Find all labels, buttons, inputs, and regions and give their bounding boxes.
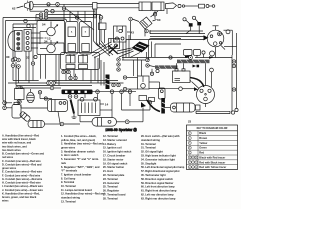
- svg-text:20. Starter button: 20. Starter button: [103, 165, 125, 169]
- connector bar dark: [106, 75, 110, 90]
- generator 24: [155, 60, 210, 69]
- svg-text:wire with red tracer, and: wire with red tracer, and: [2, 141, 32, 145]
- svg-text:Red with Black tracer: Red with Black tracer: [199, 160, 225, 164]
- solenoid bar 13: [161, 98, 165, 114]
- node: [93, 15, 96, 18]
- circuit breaker 17: [197, 86, 215, 108]
- right connector: [199, 4, 215, 8]
- svg-text:1. Conduit (five wires—black,: 1. Conduit (five wires—black,: [61, 134, 97, 138]
- node: [128, 90, 132, 94]
- rear cable: [196, 111, 235, 114]
- svg-text:wire with black tracer, black: wire with black tracer, black: [2, 137, 36, 141]
- svg-text:3. Handlebar dimmer switch: 3. Handlebar dimmer switch: [61, 149, 95, 153]
- svg-text:60. Left front direction lamp: 60. Left front direction lamp: [141, 185, 175, 189]
- breaker pointer: [190, 80, 200, 89]
- battery 14: [78, 97, 100, 115]
- node: [68, 95, 78, 99]
- stacked nodes right: [117, 58, 120, 71]
- node: [110, 90, 114, 94]
- legend column 4: [141, 134, 185, 200]
- box drops: [101, 30, 106, 48]
- frame wire mid: [152, 42, 182, 58]
- node: [34, 55, 37, 58]
- svg-text:55. Stoplight: 55. Stoplight: [141, 161, 156, 165]
- node: [45, 3, 55, 13]
- lamps terminal board 11: [62, 90, 93, 95]
- svg-text:52. Oil signal light: 52. Oil signal light: [141, 150, 163, 154]
- spark plug right: [192, 16, 201, 28]
- wire: [99, 19, 107, 29]
- svg-text:17. Circuit breaker: 17. Circuit breaker: [103, 154, 125, 158]
- svg-text:54. Generator indicator light: 54. Generator indicator light: [141, 157, 175, 161]
- svg-text:28. Terminal: 28. Terminal: [103, 196, 118, 200]
- label 62: [12, 6, 24, 11]
- svg-text:standard wiring: standard wiring: [141, 138, 160, 142]
- svg-text:1968-69 Sportster Ⓡ: 1968-69 Sportster Ⓡ: [105, 127, 137, 132]
- wires: [38, 91, 52, 100]
- diagonal wires: [92, 42, 114, 58]
- bus y85.5: [16, 85, 92, 87]
- svg-text:9. Terminal: 9. Terminal: [61, 180, 75, 184]
- svg-text:58. Direction signal switch: 58. Direction signal switch: [141, 177, 173, 181]
- lamp terminal box: [24, 30, 31, 52]
- svg-text:B. Conduit (two wires)—Green: B. Conduit (two wires)—Green and: [2, 152, 44, 156]
- svg-text:21. Horn: 21. Horn: [103, 169, 114, 173]
- svg-text:KEY TO DIAGRAM COLOR: KEY TO DIAGRAM COLOR: [197, 127, 228, 130]
- headlamp lead: [13, 51, 17, 61]
- node: [129, 17, 133, 21]
- generator brushes: [193, 65, 200, 68]
- node: [119, 29, 122, 32]
- stacked nodes left: [11, 58, 20, 68]
- headlamp bulbs: [17, 32, 20, 50]
- spark plug left: [183, 18, 193, 30]
- terminal box 2: [109, 39, 120, 49]
- wire bus y57.5: [122, 58, 232, 61]
- relay drops: [188, 54, 212, 57]
- svg-text:11. Lamps-terminal board: 11. Lamps-terminal board: [61, 188, 92, 192]
- wire conduit feeds: [70, 11, 85, 21]
- svg-text:two black wires: two black wires: [2, 148, 21, 152]
- wire: [13, 9, 167, 28]
- svg-text:23: 23: [188, 120, 192, 124]
- label 13: [45, 36, 51, 40]
- svg-text:31. Terminal: 31. Terminal: [141, 142, 156, 146]
- svg-text:51. Terminal: 51. Terminal: [141, 146, 156, 150]
- svg-text:16. Ignition-light switch: 16. Ignition-light switch: [103, 150, 132, 154]
- node pair: [39, 16, 47, 19]
- svg-text:14: 14: [105, 102, 109, 106]
- oil pressure switch 19: [138, 76, 150, 89]
- svg-text:63. Right rear direction lamp: 63. Right rear direction lamp: [141, 196, 176, 200]
- kick cylinder: [28, 121, 45, 128]
- node pair: [112, 83, 120, 86]
- right nested frame: [149, 39, 182, 61]
- wire regulator feed: [191, 59, 206, 85]
- svg-text:62: 62: [12, 7, 16, 11]
- handlebar conduit A: [66, 22, 78, 55]
- wire: [131, 19, 146, 40]
- battery lead right: [100, 102, 109, 106]
- node: [99, 15, 103, 19]
- node: [62, 4, 65, 20]
- node: [120, 90, 124, 94]
- legend column 3: [103, 134, 132, 200]
- svg-text:wires: wires: [2, 199, 9, 203]
- conduit cable: [97, 4, 139, 8]
- node: [232, 88, 235, 91]
- ignition coil 15: [92, 118, 117, 127]
- node pair: [62, 70, 70, 73]
- svg-text:two black wires, and: two black wires, and: [2, 144, 27, 148]
- svg-text:A: A: [71, 31, 73, 34]
- svg-text:7. Ignition circuit breaker: 7. Ignition circuit breaker: [61, 173, 91, 177]
- svg-text:Yellow: Yellow: [199, 141, 207, 145]
- svg-text:J. Conduit (one wire)—Green w: J. Conduit (one wire)—Green wire: [2, 188, 43, 192]
- wire right: [45, 122, 81, 126]
- tapered connector: [166, 3, 177, 9]
- coil block 1: [139, 2, 151, 11]
- node pair on bus: [47, 81, 56, 85]
- plug wires: [186, 29, 199, 34]
- cable verticals: [95, 56, 104, 86]
- junction box: [61, 53, 100, 84]
- horn coil: [27, 89, 35, 103]
- legend column 2: [61, 134, 105, 203]
- svg-text:Black with Red tracer: Black with Red tracer: [199, 155, 225, 159]
- svg-text:12. Terminal: 12. Terminal: [103, 134, 118, 138]
- wire battery to junction: [100, 109, 112, 111]
- horn 62: [25, 1, 34, 11]
- vertical wires center: [123, 35, 142, 76]
- wire bus y14.5: [36, 15, 101, 21]
- svg-text:12. Handlebar (four wires)—Red: 12. Handlebar (four wires)—Red and: [61, 192, 105, 196]
- svg-text:30: 30: [6, 55, 10, 59]
- ignition-light switch 16: [207, 26, 224, 47]
- left frame wires: [3, 18, 64, 107]
- wire horn lower: [33, 6, 92, 8]
- svg-text:10. Terminal: 10. Terminal: [61, 184, 76, 188]
- connector node: [56, 3, 60, 7]
- svg-text:62. Left rear direction lamp: 62. Left rear direction lamp: [141, 193, 174, 197]
- node dots: [4, 4, 235, 125]
- svg-text:14. Battery: 14. Battery: [103, 142, 117, 146]
- connector nodes: [178, 4, 185, 7]
- svg-text:2. Handlebar (two wires)—Red: 2. Handlebar (two wires)—Red and: [61, 142, 103, 146]
- wire connector to conduit: [59, 3, 92, 5]
- svg-text:C. Conduit (one wire)—Red wir: C. Conduit (one wire)—Red wire: [2, 159, 41, 163]
- wire lamp drops: [26, 24, 33, 83]
- battery cable: [71, 100, 75, 114]
- svg-text:green wires: green wires: [2, 166, 17, 170]
- vertical wires left: [13, 62, 33, 86]
- node pair: [123, 76, 137, 91]
- terminal box 43: [114, 26, 127, 42]
- svg-text:A. Handlebar (five wires)—Red: A. Handlebar (five wires)—Red: [2, 134, 40, 138]
- svg-text:59. Direction signal flasher: 59. Direction signal flasher: [141, 181, 173, 185]
- starter motor 18: [171, 103, 201, 112]
- bus y83: [8, 82, 124, 84]
- svg-text:E. Conduit (two wires)—Red wi: E. Conduit (two wires)—Red wire: [2, 170, 42, 174]
- node: [153, 11, 156, 19]
- angled boot: [19, 111, 31, 122]
- svg-text:standard wiring: standard wiring: [61, 196, 80, 200]
- flasher 60: [140, 17, 153, 29]
- svg-text:13: 13: [47, 36, 51, 40]
- wire: [147, 52, 160, 76]
- svg-text:Red with Yellow tracer: Red with Yellow tracer: [199, 165, 226, 169]
- horn switch 34: [47, 40, 59, 53]
- svg-text:18. Starter motor: 18. Starter motor: [103, 157, 123, 161]
- node pair: [69, 76, 77, 79]
- svg-text:61. Right front direction lamp: 61. Right front direction lamp: [141, 189, 177, 193]
- outer switch frame: [37, 19, 67, 21]
- svg-text:red wires: red wires: [2, 155, 14, 159]
- switch housing box: [37, 21, 65, 55]
- battery ground: [72, 114, 77, 119]
- wire fan: [117, 48, 140, 58]
- svg-text:56. Left directional signal pi: 56. Left directional signal pilot lamp: [141, 165, 185, 169]
- node: [232, 60, 235, 68]
- svg-text:5. Generator “F” and “A” term: 5. Generator “F” and “A” termi-: [61, 157, 99, 161]
- bus y88: [20, 86, 61, 89]
- arrow into switch: [204, 35, 209, 40]
- conduit box drops: [64, 54, 88, 76]
- svg-text:43: 43: [131, 30, 135, 34]
- node: [96, 90, 100, 94]
- svg-text:Green: Green: [199, 146, 207, 150]
- wire drops to bus: [41, 55, 60, 86]
- svg-text:13. Starter solenoid: 13. Starter solenoid: [103, 138, 127, 142]
- svg-text:green wires: green wires: [61, 146, 76, 150]
- right frame wire: [224, 33, 238, 112]
- wire: [85, 94, 130, 118]
- node: [145, 29, 149, 33]
- switch bracket: [224, 30, 233, 55]
- svg-text:G. Conduit (two wires)—Red wi: G. Conduit (two wires)—Red wire: [2, 177, 43, 181]
- svg-text:yellow, blue, red, and green): yellow, blue, red, and green): [61, 138, 95, 142]
- wire bus y17.5: [3, 17, 93, 19]
- svg-text:nals: nals: [61, 161, 67, 165]
- svg-text:26. Regulator: 26. Regulator: [103, 189, 119, 193]
- node: [24, 19, 30, 27]
- svg-text:29. Horn switch—(flat wire) wi: 29. Horn switch—(flat wire) with: [141, 134, 180, 138]
- svg-text:8. Coil lamp: 8. Coil lamp: [61, 176, 76, 180]
- switch leads: [40, 32, 47, 49]
- svg-text:Red: Red: [199, 151, 204, 155]
- svg-text:15. Ignition coil: 15. Ignition coil: [103, 146, 122, 150]
- arrow: [209, 56, 214, 58]
- conduit end block: [93, 3, 98, 9]
- svg-text:Black: Black: [199, 131, 206, 135]
- nodes left edge: [3, 101, 48, 110]
- dimmer switch 54: [47, 22, 59, 36]
- wire color key table: [187, 120, 238, 170]
- svg-text:K. Handlebar (five wires)—Red: K. Handlebar (five wires)—Red,: [2, 191, 40, 195]
- svg-text:I. Conduit (two wires)—Black: I. Conduit (two wires)—Black wire: [2, 184, 43, 188]
- wire oil sender to cable: [147, 98, 171, 112]
- svg-text:25. Terminal: 25. Terminal: [103, 185, 118, 189]
- headlamp shell: [8, 30, 22, 51]
- wire to right connector: [185, 5, 199, 7]
- node: [75, 16, 78, 19]
- node: [31, 62, 34, 65]
- generator terminals lower: [139, 96, 155, 120]
- svg-text:D. Conduit (two wires)—Red an: D. Conduit (two wires)—Red and: [2, 162, 42, 166]
- spark coil cylinder: [12, 102, 21, 118]
- svg-text:23. Terminal: 23. Terminal: [103, 177, 118, 181]
- wire diagonal: [65, 8, 94, 30]
- wire bus y11: [30, 9, 95, 15]
- wire drop from horn: [29, 4, 31, 11]
- label 43: [127, 30, 134, 34]
- wire lamp feed: [31, 43, 64, 53]
- svg-text:Brown: Brown: [199, 136, 207, 140]
- wire: [122, 101, 152, 110]
- wire horn to connector: [33, 3, 55, 5]
- node pair: [146, 56, 172, 67]
- svg-text:54: 54: [42, 23, 46, 27]
- svg-text:6. Regulator “BAT”, “GEN”, an: 6. Regulator “BAT”, “GEN”, and: [61, 165, 100, 169]
- relay box 20: [48, 100, 68, 127]
- svg-text:F. Conduit (one wire)—Red wir: F. Conduit (one wire)—Red wire: [2, 173, 41, 177]
- ignition switch housing: [132, 42, 150, 53]
- coil block 2: [152, 2, 164, 11]
- svg-text:22. Terminal plate: 22. Terminal plate: [103, 173, 125, 177]
- svg-text:53. High beam indicator light: 53. High beam indicator light: [141, 154, 176, 158]
- node pair: [39, 13, 47, 16]
- svg-text:“F” terminals: “F” terminals: [61, 169, 78, 173]
- wire: [149, 82, 160, 88]
- crossed cables: [109, 45, 118, 54]
- ignition switch drop: [216, 46, 226, 58]
- bus y80.5: [13, 80, 118, 82]
- handlebar conduit B: [79, 22, 91, 55]
- svg-text:brown, green, and two black: brown, green, and two black: [2, 195, 37, 199]
- legend column 1: [2, 134, 44, 203]
- relay blocks: [184, 50, 215, 58]
- oil signal sender: [159, 88, 166, 106]
- coil leads: [80, 116, 143, 124]
- regulator 26: [173, 69, 204, 87]
- svg-text:4. Horn switch: 4. Horn switch: [61, 153, 79, 157]
- svg-text:57. Right directional signal p: 57. Right directional signal pilot: [141, 169, 180, 173]
- svg-text:13. Terminal: 13. Terminal: [61, 199, 76, 203]
- svg-text:60: 60: [157, 18, 161, 22]
- svg-text:19. Oil signal switch: 19. Oil signal switch: [103, 161, 128, 165]
- svg-text:B: B: [85, 32, 87, 34]
- node: [50, 86, 54, 90]
- wire bus to ignition switch: [126, 30, 205, 40]
- label 60: [153, 18, 161, 22]
- lamp wires: [31, 33, 43, 48]
- svg-text:24. Generator: 24. Generator: [103, 181, 119, 185]
- regulator leads: [177, 55, 233, 112]
- terminal block 22: [15, 87, 25, 104]
- svg-text:45. Tachometer light: 45. Tachometer light: [141, 173, 166, 177]
- svg-text:H. Conduit (one wire)—Red wir: H. Conduit (one wire)—Red wire: [2, 181, 41, 185]
- board wire: [93, 91, 137, 93]
- node: [189, 56, 193, 60]
- svg-text:27. Terminal board: 27. Terminal board: [103, 193, 126, 197]
- breaker lead: [149, 87, 198, 91]
